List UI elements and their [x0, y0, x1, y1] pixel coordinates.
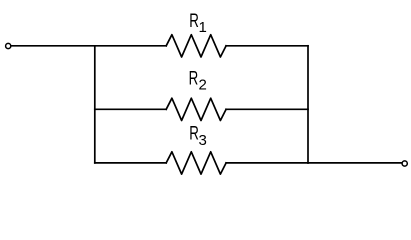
- resistor R3 (zigzag): [166, 152, 226, 174]
- resistor R1 (zigzag): [166, 35, 226, 57]
- svg-text:1: 1: [199, 19, 207, 36]
- terminal T2 (right output terminal): [402, 161, 407, 166]
- label R2: [189, 67, 207, 94]
- wire: node A to resistor R2 left lead: [95, 108, 166, 110]
- resistor R2 (zigzag): [166, 98, 226, 120]
- svg-text:3: 3: [199, 132, 207, 149]
- wire: left terminal to node A: [11, 45, 95, 47]
- label R3: [189, 122, 207, 149]
- svg-text:2: 2: [199, 77, 207, 94]
- label R1: [189, 9, 207, 36]
- terminal T1 (left input terminal): [6, 43, 11, 48]
- wire: node A to resistor R3 left lead: [95, 162, 166, 164]
- node B (right junction bus, vertical wire): [307, 46, 309, 163]
- wire: node A to resistor R1 left lead: [95, 45, 166, 47]
- svg-text:R: R: [189, 67, 199, 89]
- svg-text:R: R: [189, 122, 199, 144]
- wire: resistor R3 right lead to node B: [226, 162, 308, 164]
- node A (left junction bus, vertical wire): [94, 46, 96, 163]
- wire: resistor R2 right lead to node B: [226, 108, 308, 110]
- svg-text:R: R: [189, 9, 199, 31]
- wire: node B to right terminal: [308, 162, 402, 164]
- wire: resistor R1 right lead to node B: [226, 45, 308, 47]
